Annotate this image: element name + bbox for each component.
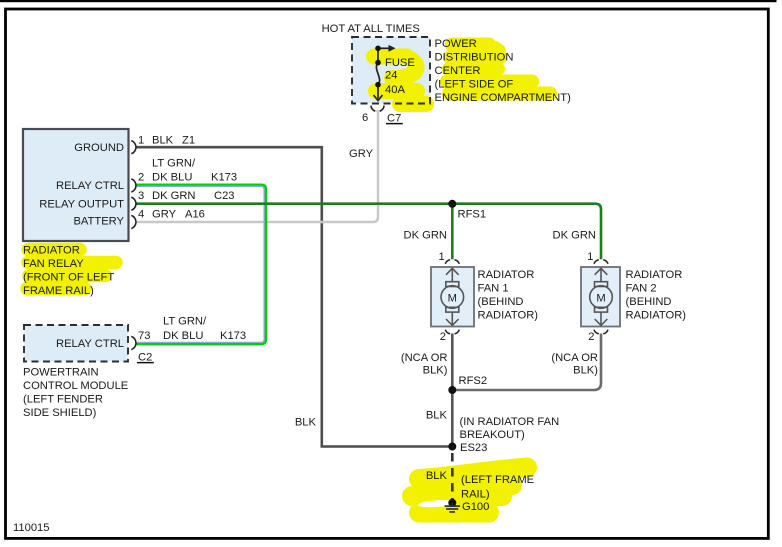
- motor M1 symbol (fan1): [441, 268, 464, 325]
- node RFS2: [448, 386, 456, 394]
- wire BLK dashed below ES23 to G100: [451, 453, 454, 500]
- svg-text:2: 2: [440, 331, 446, 343]
- pin 1 connector: [131, 141, 136, 154]
- wire GRY A16 from relay pin4 up to fuse C7: [136, 110, 378, 222]
- fan1 pin1 connector: [445, 260, 459, 264]
- fan1 box border: [431, 267, 474, 327]
- wire DK GRN C23 relay pin3 to fan2 pin1: [136, 204, 601, 260]
- svg-text:1: 1: [138, 134, 144, 146]
- svg-text:FAN RELAY: FAN RELAY: [23, 258, 84, 270]
- svg-text:DISTRIBUTION: DISTRIBUTION: [435, 52, 514, 64]
- fuse lower lead: [377, 85, 379, 99]
- svg-text:(LEFT FRAME: (LEFT FRAME: [461, 474, 534, 486]
- svg-text:BATTERY: BATTERY: [73, 216, 124, 228]
- svg-text:DK GRN: DK GRN: [552, 230, 596, 242]
- node G100 dot: [448, 499, 456, 507]
- svg-text:1: 1: [587, 251, 593, 263]
- wire BLK Z1 from relay pin1 to ES23: [136, 147, 449, 446]
- svg-text:4: 4: [138, 208, 144, 220]
- svg-text:BLK: BLK: [426, 470, 448, 482]
- PCM box border (dashed): [24, 325, 128, 362]
- svg-text:BLK: BLK: [426, 410, 448, 422]
- pin 2 connector: [131, 179, 136, 192]
- top edge rule: [0, 0, 777, 2]
- svg-text:Z1: Z1: [182, 134, 195, 146]
- wire GRY stub below fuse connector: [376, 110, 379, 112]
- svg-text:DK GRN: DK GRN: [152, 190, 196, 202]
- svg-text:RADIATOR: RADIATOR: [23, 245, 80, 257]
- highlight over fuse area (2-shaped scribble): [374, 57, 426, 105]
- PCM box fill: [24, 325, 128, 362]
- svg-text:POWER: POWER: [435, 38, 477, 50]
- svg-text:M: M: [596, 293, 605, 305]
- fan2 box border: [581, 267, 620, 327]
- svg-text:(NCA OR: (NCA OR: [551, 352, 598, 364]
- svg-text:GRY: GRY: [152, 208, 177, 220]
- highlight over POWER DISTRIBUTION CENTER (LEFT SIDE OF ENGINE COMPARTMENT: [447, 45, 550, 94]
- white gap inside G100 highlight: [418, 499, 456, 508]
- fuse box (dashed, power distribution center): [352, 37, 430, 104]
- svg-text:ES23: ES23: [460, 442, 487, 454]
- svg-text:RELAY CTRL: RELAY CTRL: [56, 180, 124, 192]
- pin 4 connector: [131, 215, 136, 228]
- svg-text:RADIATOR: RADIATOR: [626, 269, 683, 281]
- fuse feed node and arrow: [378, 47, 389, 49]
- svg-text:RFS1: RFS1: [458, 209, 487, 221]
- svg-text:40A: 40A: [385, 84, 405, 96]
- svg-text:BREAKOUT): BREAKOUT): [460, 429, 526, 441]
- svg-text:BLK): BLK): [423, 365, 448, 377]
- svg-text:FAN 2: FAN 2: [626, 283, 657, 295]
- svg-text:K173: K173: [211, 171, 237, 183]
- arrowhead right (feed): [389, 45, 396, 52]
- svg-text:FRAME RAIL): FRAME RAIL): [23, 285, 94, 297]
- svg-text:C7: C7: [387, 113, 401, 125]
- relay box border: [23, 129, 129, 241]
- svg-text:110015: 110015: [13, 522, 50, 534]
- wire DK GRN RFS1 branch to fan1 pin1: [451, 204, 454, 260]
- fan1 box fill: [431, 267, 474, 327]
- highlight around G100 / LEFT FRAME RAIL scribble: [412, 468, 527, 513]
- svg-text:POWERTRAIN: POWERTRAIN: [23, 367, 99, 379]
- svg-text:RAIL): RAIL): [461, 488, 490, 500]
- fan1 pin2 connector: [445, 330, 459, 334]
- fuse node dots: [375, 46, 381, 52]
- svg-text:HOT AT ALL TIMES: HOT AT ALL TIMES: [322, 23, 420, 35]
- svg-text:RADIATOR: RADIATOR: [478, 269, 535, 281]
- svg-text:RADIATOR): RADIATOR): [626, 310, 687, 322]
- svg-text:RFS2: RFS2: [459, 375, 488, 387]
- pin 3 connector: [131, 197, 136, 210]
- svg-text:(IN RADIATOR FAN: (IN RADIATOR FAN: [460, 416, 560, 428]
- motor M2 symbol (fan2): [590, 268, 613, 325]
- svg-text:SIDE SHIELD): SIDE SHIELD): [23, 407, 97, 419]
- svg-text:73: 73: [138, 330, 150, 342]
- wire fan2 pin2 down and left to RFS2: [452, 334, 601, 391]
- svg-text:6: 6: [362, 112, 368, 124]
- svg-text:A16: A16: [185, 208, 205, 220]
- svg-text:(LEFT SIDE OF: (LEFT SIDE OF: [435, 79, 514, 91]
- svg-text:DK BLU: DK BLU: [163, 330, 203, 342]
- wire fan1 pin2 down through RFS2 to ES23: [451, 334, 454, 449]
- fan2 pin2 connector: [594, 330, 608, 334]
- svg-text:GRY: GRY: [349, 148, 374, 160]
- fuse element squiggle: [376, 63, 379, 85]
- svg-text:DK BLU: DK BLU: [152, 171, 192, 183]
- svg-text:LT GRN/: LT GRN/: [163, 316, 207, 328]
- svg-text:G100: G100: [462, 501, 489, 513]
- fuse box F24 fill: [352, 37, 430, 104]
- svg-text:DK GRN: DK GRN: [403, 230, 447, 242]
- svg-text:C2: C2: [138, 352, 152, 364]
- node ES23: [448, 443, 456, 451]
- connector C7 half-circle: [371, 106, 384, 112]
- svg-text:ENGINE COMPARTMENT): ENGINE COMPARTMENT): [435, 92, 572, 104]
- fan2 box fill: [581, 267, 620, 327]
- svg-text:2: 2: [588, 331, 594, 343]
- svg-text:LT GRN/: LT GRN/: [152, 158, 196, 170]
- svg-text:2: 2: [138, 171, 144, 183]
- svg-text:BLK: BLK: [295, 417, 317, 429]
- fan2 pin1 connector: [594, 260, 608, 264]
- svg-text:K173: K173: [220, 330, 246, 342]
- svg-text:(BEHIND: (BEHIND: [626, 296, 672, 308]
- PCM pin 73 connector: [131, 336, 136, 349]
- svg-text:1: 1: [438, 251, 444, 263]
- svg-text:RADIATOR): RADIATOR): [478, 310, 539, 322]
- svg-text:(LEFT FENDER: (LEFT FENDER: [23, 394, 103, 406]
- svg-text:FAN 1: FAN 1: [478, 283, 509, 295]
- svg-text:BLK: BLK: [152, 134, 174, 146]
- svg-text:(FRONT OF LEFT: (FRONT OF LEFT: [23, 272, 114, 284]
- svg-text:RELAY OUTPUT: RELAY OUTPUT: [39, 198, 124, 210]
- highlight over RADIATOR FAN RELAY (FRONT OF LEFT FRAME RAIL: [27, 250, 116, 289]
- node RFS1: [448, 200, 456, 208]
- svg-text:FUSE: FUSE: [385, 57, 415, 69]
- svg-text:RELAY CTRL: RELAY CTRL: [56, 338, 124, 350]
- svg-text:3: 3: [138, 190, 144, 202]
- svg-text:CENTER: CENTER: [435, 65, 481, 77]
- svg-text:(BEHIND: (BEHIND: [478, 296, 524, 308]
- arrowhead down at fuse output: [374, 95, 383, 101]
- svg-text:24: 24: [385, 70, 397, 82]
- wire LT GRN/DK BLU K173 relay pin2 to PCM pin73 (two-tone): [136, 186, 264, 342]
- svg-text:C23: C23: [214, 190, 235, 202]
- relay box fill: [23, 129, 129, 241]
- fuse symbol internals: [376, 48, 389, 98]
- svg-text:GROUND: GROUND: [74, 142, 124, 154]
- highlighter marks: [27, 45, 550, 513]
- svg-text:CONTROL MODULE: CONTROL MODULE: [23, 380, 128, 392]
- svg-text:(NCA OR: (NCA OR: [401, 352, 448, 364]
- ground symbol G100: [445, 503, 460, 512]
- svg-text:BLK): BLK): [573, 365, 598, 377]
- svg-text:M: M: [448, 293, 457, 305]
